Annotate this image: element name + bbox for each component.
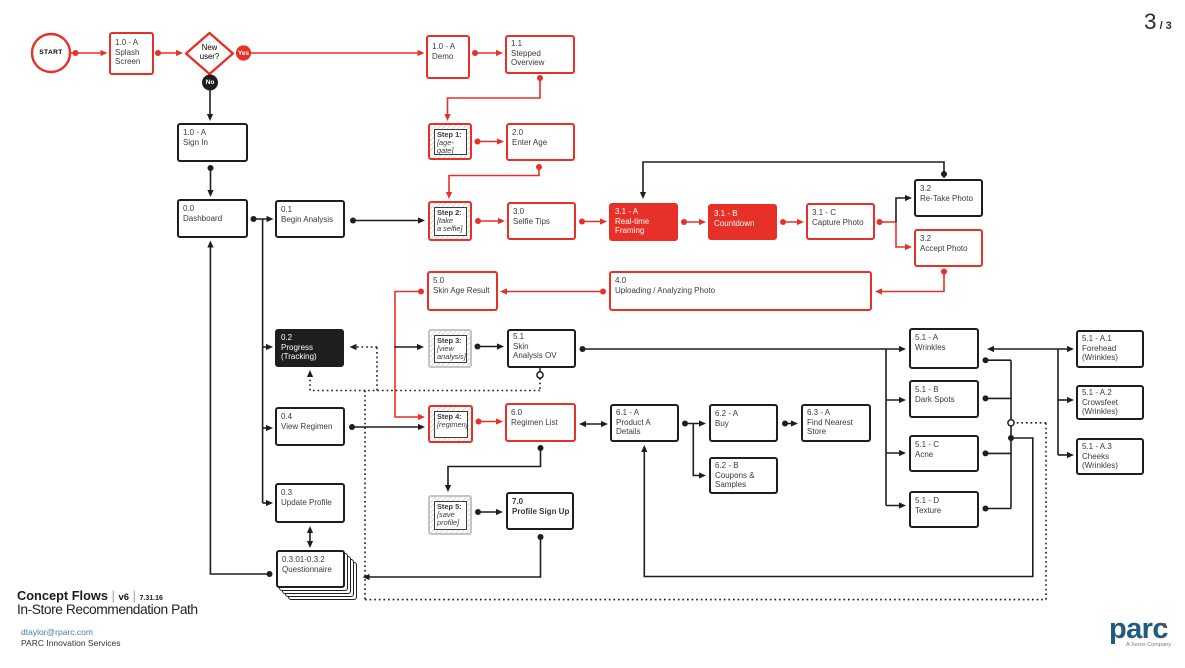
box 5.1-A.2 Crowsfeet (Wrinkles) bbox=[1076, 385, 1144, 420]
wire branch to Step 3 bbox=[394, 344, 424, 350]
box 1.0-A Splash Screen bbox=[109, 32, 154, 75]
wire Stepped Overview down to Step 1 bbox=[444, 75, 543, 121]
wire Skin Age Result down to Step 4 bbox=[395, 289, 425, 421]
footer contact bbox=[21, 627, 93, 637]
wire Buy to Find Nearest Store bbox=[782, 420, 798, 426]
wire Wrinkles double arrow Forehead with fan to Crowsfeet Cheeks bbox=[987, 346, 1074, 458]
wire Wrinkles column collector bbox=[983, 357, 1012, 511]
wire Product A Details to Buy and Coupons bbox=[682, 420, 706, 478]
box 0.3 Update Profile bbox=[275, 483, 345, 523]
box Step 2 [take a selfie] bbox=[428, 201, 472, 241]
wire Real-time Framing to Countdown bbox=[681, 219, 706, 225]
box 2.0 Enter Age bbox=[506, 123, 575, 161]
box 5.0 Skin Age Result bbox=[427, 271, 498, 311]
wire Step 2 to Selfie Tips bbox=[475, 218, 505, 224]
wire Regimen List down to Step 5 bbox=[445, 445, 544, 492]
box 0.3.01-0.3.2 Questionnaire stacked pages bbox=[288, 562, 357, 600]
box Step 5 [save profile] bbox=[428, 495, 472, 535]
box 5.1-D Texture bbox=[909, 491, 979, 528]
wire Splash Screen to New user diamond bbox=[155, 50, 183, 56]
box 4.0 Uploading / Analyzing Photo bbox=[609, 271, 872, 311]
wire Demo to Stepped Overview bbox=[472, 50, 503, 56]
box 5.1-A.1 Forehead (Wrinkles) bbox=[1076, 330, 1144, 368]
dotted texture inside Skin Age Result box bbox=[431, 304, 494, 306]
box 5.1-B Dark Spots bbox=[909, 380, 979, 418]
label START bbox=[33, 49, 69, 56]
wire Dashboard branch vertical to Progress / View Regimen / Update Profile bbox=[263, 219, 273, 506]
box 6.3-A Find Nearest Store bbox=[801, 404, 871, 442]
box 3.1-C Capture Photo bbox=[806, 203, 875, 240]
wire Yes to Demo bbox=[251, 50, 425, 56]
wire Step 1 to Enter Age bbox=[475, 138, 505, 144]
wire Questionnaire back to Dashboard bbox=[207, 241, 272, 578]
label No bbox=[199, 79, 221, 86]
box 5.1-C Acne bbox=[909, 435, 979, 472]
yes connector circle bbox=[236, 45, 251, 60]
box 6.0 Regimen List bbox=[505, 403, 576, 442]
wire Uploading to Skin Age Result bbox=[500, 288, 606, 294]
box 0.0 Dashboard bbox=[177, 199, 248, 238]
wire Selfie Tips to Real-time Framing bbox=[579, 218, 607, 224]
page number 3/3 bbox=[1144, 9, 1172, 35]
box 3.1-B Countdown bbox=[708, 204, 777, 240]
box 1.1 Stepped Overview bbox=[505, 35, 575, 74]
wire dotted from Skin Analysis OV circle to Progress bbox=[307, 344, 540, 391]
footer title block bbox=[17, 588, 163, 603]
wire Accept Photo to Uploading box bbox=[875, 269, 947, 295]
label New user? bbox=[187, 44, 232, 61]
wire Enter Age down to Step 2 bbox=[446, 164, 542, 199]
wire Skin Analysis OV to Wrinkles with fan to Dark Spots Acne Texture bbox=[580, 346, 907, 509]
wire Begin Analysis to Step 2 bbox=[350, 217, 425, 223]
box 3.2 Re-Take Photo bbox=[914, 179, 983, 217]
box 0.2 Progress (Tracking) bbox=[275, 329, 344, 367]
box 1.0-A Demo bbox=[426, 35, 470, 79]
box Step 4 [regimen] bbox=[428, 405, 473, 443]
box Step 3 [view analysis] bbox=[428, 329, 472, 368]
wire Regimen List double arrow Product A Details bbox=[579, 421, 608, 427]
wire Countdown to Capture Photo bbox=[780, 219, 804, 225]
no connector circle bbox=[202, 75, 218, 91]
wire Capture Photo split to Re-Take Photo bbox=[896, 195, 912, 222]
label Yes bbox=[233, 50, 254, 57]
box 1.0-A Sign In bbox=[177, 123, 248, 162]
start terminator circle bbox=[32, 34, 70, 72]
box 6.2-A Buy bbox=[709, 404, 778, 442]
wire Re-Take Photo loop to Real-time Framing bbox=[640, 162, 947, 199]
box 7.0 Profile Sign Up bbox=[506, 492, 574, 530]
wire dotted long loop bottom bbox=[365, 391, 1046, 600]
wire Step 3 to Skin Analysis OV bbox=[475, 343, 505, 349]
wire Profile Sign Up down to Questionnaire bbox=[363, 534, 544, 580]
wire Dashboard to Begin Analysis bbox=[251, 216, 274, 222]
wire Sign In to Dashboard bbox=[207, 165, 213, 197]
wire START to Splash Screen bbox=[70, 50, 108, 56]
box 0.4 View Regimen bbox=[275, 407, 345, 446]
node open circle below Skin Analysis OV bbox=[537, 368, 543, 378]
box 0.1 Begin Analysis bbox=[275, 200, 345, 238]
box 6.1-A Product A Details bbox=[610, 404, 679, 442]
wire Step 4 to Regimen List bbox=[476, 418, 504, 424]
box 5.1-A Wrinkles bbox=[909, 328, 979, 369]
box 3.0 Selfie Tips bbox=[507, 202, 576, 240]
wire Capture Photo split to Accept Photo bbox=[877, 219, 913, 250]
box 3.2 Accept Photo bbox=[914, 229, 983, 267]
wire No to Sign In bbox=[207, 91, 213, 122]
wire Step 5 to Profile Sign Up bbox=[475, 509, 503, 515]
wire View Regimen to Step 4 bbox=[349, 424, 425, 430]
box 5.1-A.3 Cheeks (Wrinkles) bbox=[1076, 438, 1144, 475]
dotted texture inside Uploading box bbox=[613, 304, 868, 306]
box 6.2-B Coupons & Samples bbox=[709, 457, 778, 494]
parc logo bbox=[1109, 613, 1168, 646]
wire analysis junction loop to Product A Details bbox=[641, 435, 1033, 577]
box 3.1-A Real-time Framing bbox=[609, 203, 678, 241]
node open circle on Wrinkles collector bbox=[1008, 420, 1014, 426]
box Step 1 [age-gate] bbox=[428, 123, 472, 160]
box 5.1 Skin Analysis OV bbox=[507, 329, 576, 368]
wire Update Profile double arrow Questionnaire bbox=[307, 526, 313, 548]
decision diamond New user? bbox=[186, 33, 233, 74]
